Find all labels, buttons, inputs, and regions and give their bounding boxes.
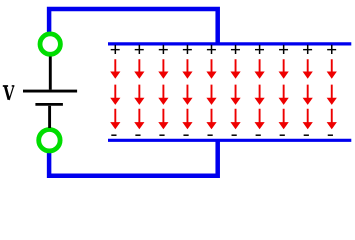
electric field arrows between plates — [110, 59, 337, 129]
battery negative terminal node — [39, 130, 60, 151]
battery long plate (+) — [23, 90, 77, 93]
wire battery-bottom to bottom plate — [49, 139, 218, 176]
capacitor top plate — [108, 42, 351, 45]
minus charges on bottom plate — [111, 134, 333, 136]
battery bottom lead — [48, 106, 51, 128]
label V (battery voltage) — [3, 86, 15, 100]
plus charges on top plate — [111, 45, 336, 54]
battery positive terminal node — [40, 34, 60, 54]
capacitor bottom plate — [108, 139, 351, 142]
wire battery-top to top plate — [49, 9, 218, 45]
battery top lead — [49, 57, 52, 90]
battery short plate (-) — [35, 103, 63, 106]
